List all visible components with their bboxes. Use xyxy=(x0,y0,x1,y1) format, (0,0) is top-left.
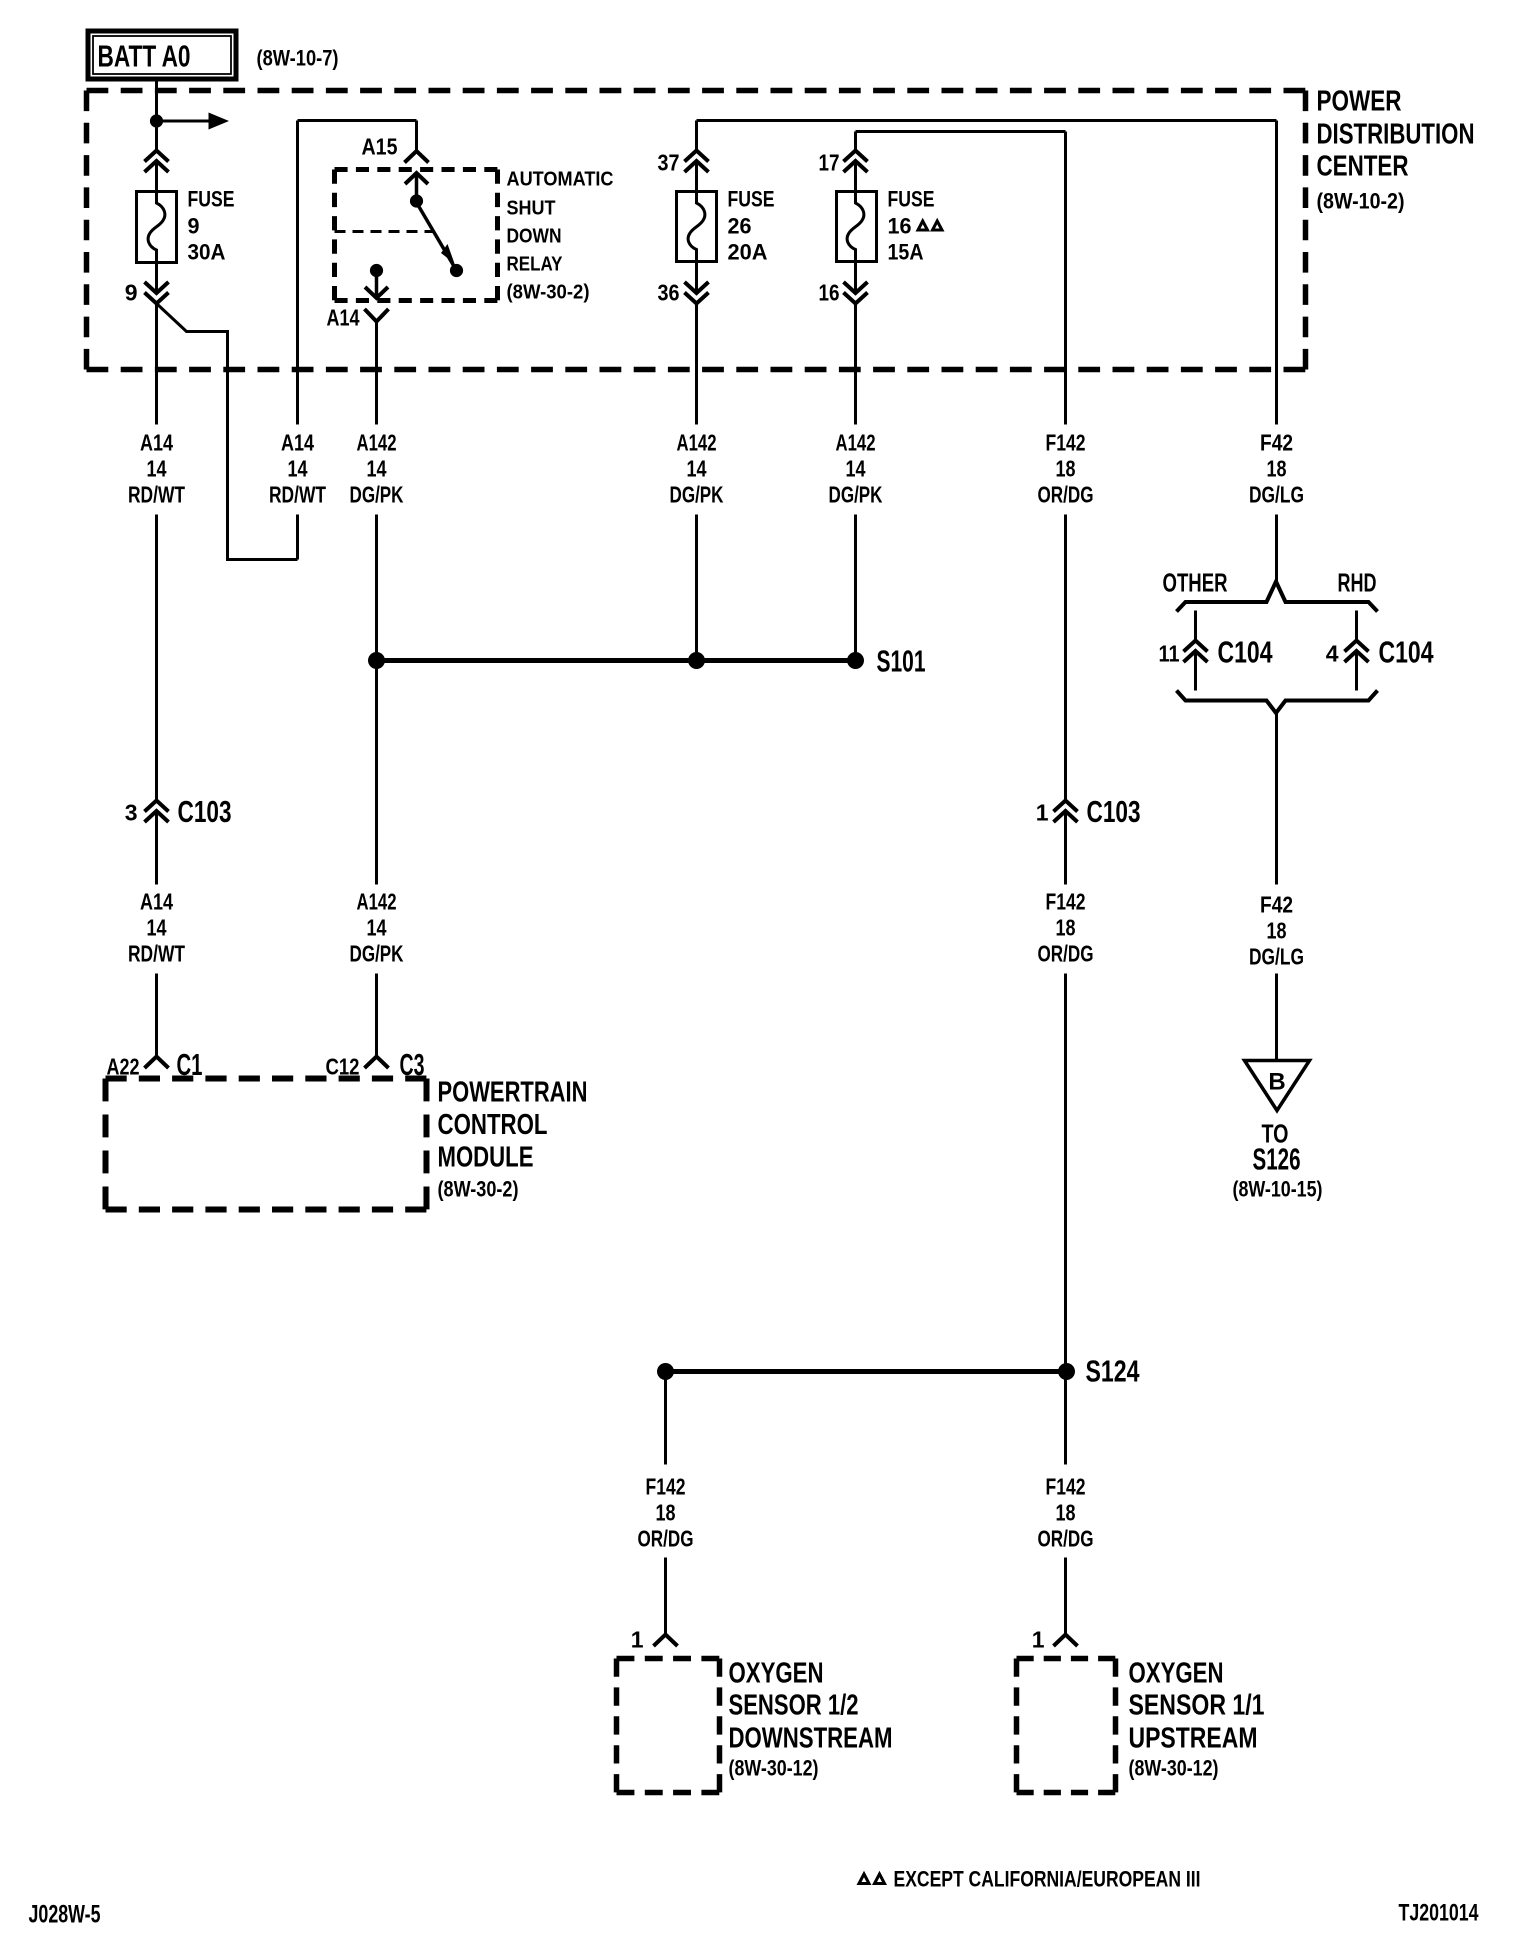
wire label A14 14 RD/WT column 2 row 1 xyxy=(269,430,326,508)
svg-text:POWER: POWER xyxy=(1317,86,1402,118)
svg-text:DG/LG: DG/LG xyxy=(1249,482,1304,508)
label OXYGEN SENSOR 1/2 DOWNSTREAM xyxy=(729,1658,893,1781)
wire label A14 14 RD/WT column 1 row 2 xyxy=(128,889,185,967)
triangle off-page connector B xyxy=(1245,1061,1310,1111)
svg-text:A142: A142 xyxy=(357,430,397,456)
connector half chevron C3 xyxy=(365,1057,389,1069)
svg-text:DG/PK: DG/PK xyxy=(350,482,404,508)
svg-text:RD/WT: RD/WT xyxy=(128,482,185,508)
svg-text:C104: C104 xyxy=(1379,635,1435,670)
relay switch arm with arrowhead xyxy=(417,203,457,271)
splice S101 xyxy=(368,644,926,679)
svg-text:OXYGEN: OXYGEN xyxy=(729,1658,824,1690)
wire arrow to right from BATT feed xyxy=(163,113,230,130)
svg-text:OR/DG: OR/DG xyxy=(1038,1526,1094,1552)
wire horizontal feed to relay pin A15 xyxy=(298,119,417,122)
svg-text:CONTROL: CONTROL xyxy=(438,1109,548,1141)
svg-text:FUSE: FUSE xyxy=(888,187,935,212)
svg-text:14: 14 xyxy=(147,915,167,941)
svg-text:11: 11 xyxy=(1159,641,1180,667)
power distribution center dashed box xyxy=(87,91,1306,370)
connector half chevron C1 xyxy=(145,1057,169,1069)
svg-text:RHD: RHD xyxy=(1338,568,1377,598)
wire top feed to fuse 26 and F42 xyxy=(697,119,1277,122)
svg-text:36: 36 xyxy=(658,280,680,306)
wire stub C104 right xyxy=(1355,611,1358,691)
wire label A142 14 DG/PK column 3 row 1 xyxy=(350,430,404,508)
svg-text:(8W-10-2): (8W-10-2) xyxy=(1317,189,1405,214)
svg-text:(8W-30-12): (8W-30-12) xyxy=(729,1756,819,1781)
svg-text:S126: S126 xyxy=(1253,1142,1301,1177)
relay automatic shut down dashed box xyxy=(335,170,498,301)
node BATT A0 box xyxy=(88,31,236,79)
svg-text:F42: F42 xyxy=(1260,430,1293,456)
svg-text:SENSOR 1/1: SENSOR 1/1 xyxy=(1129,1690,1265,1722)
wire relay feed column A14 RD/WT xyxy=(296,121,299,560)
svg-text:1: 1 xyxy=(1036,800,1049,826)
svg-text:EXCEPT CALIFORNIA/EUROPEAN III: EXCEPT CALIFORNIA/EUROPEAN III xyxy=(894,1867,1201,1892)
svg-text:POWERTRAIN: POWERTRAIN xyxy=(438,1077,588,1109)
fuse 26 20A xyxy=(677,187,775,265)
label AUTOMATIC SHUT DOWN RELAY xyxy=(507,169,614,304)
svg-text:OR/DG: OR/DG xyxy=(638,1526,694,1552)
wire top feed to fuse 16 and F142 xyxy=(856,130,1066,133)
connector half chevron left sensor xyxy=(654,1635,678,1647)
svg-text:OTHER: OTHER xyxy=(1163,568,1228,598)
relay pin A15 arrow inside xyxy=(405,173,428,201)
connector half chevron below relay pin A14 xyxy=(365,309,389,322)
wire label F142 18 OR/DG column 6 row 1 xyxy=(1038,430,1094,508)
connector chevrons above fuse 26 xyxy=(685,151,709,173)
svg-text:SHUT: SHUT xyxy=(507,198,556,220)
svg-text:14: 14 xyxy=(367,456,387,482)
connector chevrons C103 right xyxy=(1054,801,1078,823)
wire into fuse 26 xyxy=(695,121,698,192)
wire F142 column from PDC xyxy=(1064,132,1067,1635)
wire branch from fuse 9 output to relay feed column xyxy=(157,304,298,560)
brace bottom at C104 xyxy=(1177,691,1378,714)
svg-text:(8W-30-12): (8W-30-12) xyxy=(1129,1756,1219,1781)
svg-text:SENSOR 1/2: SENSOR 1/2 xyxy=(729,1690,859,1722)
powertrain control module dashed box xyxy=(106,1079,427,1210)
svg-text:DG/PK: DG/PK xyxy=(829,482,883,508)
svg-text:37: 37 xyxy=(658,150,680,176)
svg-text:17: 17 xyxy=(819,150,840,176)
note EXCEPT CALIFORNIA/EUROPEAN III xyxy=(859,1867,1201,1892)
svg-text:RD/WT: RD/WT xyxy=(269,482,326,508)
label POWERTRAIN CONTROL MODULE xyxy=(438,1077,588,1202)
fuse 16 15A xyxy=(837,187,935,265)
svg-text:F142: F142 xyxy=(646,1474,686,1500)
svg-text:RELAY: RELAY xyxy=(507,254,564,276)
wire BATT A0 to fuse 9 xyxy=(155,82,158,192)
svg-text:S124: S124 xyxy=(1086,1354,1141,1389)
svg-text:RD/WT: RD/WT xyxy=(128,941,185,967)
svg-text:14: 14 xyxy=(846,456,866,482)
wire below fuse 9 xyxy=(155,263,158,425)
wire stub C104 left xyxy=(1194,611,1197,691)
svg-text:26: 26 xyxy=(728,214,752,239)
svg-text:F42: F42 xyxy=(1260,892,1293,918)
svg-text:(8W-10-15): (8W-10-15) xyxy=(1233,1177,1323,1202)
svg-text:MODULE: MODULE xyxy=(438,1142,534,1174)
svg-text:C103: C103 xyxy=(1087,794,1141,829)
svg-text:F142: F142 xyxy=(1046,1474,1086,1500)
svg-text:AUTOMATIC: AUTOMATIC xyxy=(507,169,614,191)
svg-text:15A: 15A xyxy=(888,240,924,265)
label POWER DISTRIBUTION CENTER xyxy=(1317,86,1475,214)
svg-text:C103: C103 xyxy=(178,794,232,829)
connector half chevron right sensor xyxy=(1054,1635,1078,1647)
svg-text:DOWNSTREAM: DOWNSTREAM xyxy=(729,1723,893,1755)
svg-text:30A: 30A xyxy=(188,240,226,265)
svg-text:OR/DG: OR/DG xyxy=(1038,941,1094,967)
svg-text:18: 18 xyxy=(1056,1500,1076,1526)
connector chevrons below fuse 9 xyxy=(145,282,169,304)
svg-text:S101: S101 xyxy=(877,644,926,679)
svg-text:(8W-30-2): (8W-30-2) xyxy=(507,282,590,304)
svg-text:20A: 20A xyxy=(728,240,768,265)
connector chevrons C104 right xyxy=(1345,641,1369,663)
svg-text:1: 1 xyxy=(631,1627,644,1653)
svg-text:TJ201014: TJ201014 xyxy=(1399,1900,1479,1927)
svg-text:UPSTREAM: UPSTREAM xyxy=(1129,1723,1258,1755)
svg-text:DOWN: DOWN xyxy=(507,226,562,248)
svg-text:16: 16 xyxy=(888,214,912,239)
svg-text:C104: C104 xyxy=(1218,635,1274,670)
relay pin A14 arrow down xyxy=(365,271,388,299)
marker triangles for fuse 16 xyxy=(918,221,942,230)
wire label F42 18 DG/LG column 7 row 2 xyxy=(1249,892,1304,970)
svg-text:CENTER: CENTER xyxy=(1317,151,1409,183)
wire label F142 18 OR/DG right row 3 xyxy=(1038,1474,1094,1552)
label OXYGEN SENSOR 1/1 UPSTREAM xyxy=(1129,1658,1265,1781)
wire column 1 lower segments xyxy=(155,515,158,1057)
svg-text:BATT A0: BATT A0 xyxy=(98,39,191,74)
svg-text:18: 18 xyxy=(1267,918,1287,944)
svg-text:A14: A14 xyxy=(140,889,173,915)
svg-text:A14: A14 xyxy=(140,430,173,456)
svg-text:DISTRIBUTION: DISTRIBUTION xyxy=(1317,119,1475,151)
svg-text:18: 18 xyxy=(656,1500,676,1526)
connector chevrons below fuse 26 xyxy=(685,282,709,304)
relay switch common dot xyxy=(410,194,423,207)
relay switch output dot xyxy=(450,264,463,277)
svg-text:14: 14 xyxy=(687,456,707,482)
fuse 9 30A xyxy=(137,187,235,265)
svg-text:A142: A142 xyxy=(836,430,876,456)
wire label F142 18 OR/DG left row 3 xyxy=(638,1474,694,1552)
wire label A142 14 DG/PK column 5 row 1 xyxy=(829,430,883,508)
svg-text:9: 9 xyxy=(125,280,138,306)
svg-text:F142: F142 xyxy=(1046,889,1086,915)
svg-text:A15: A15 xyxy=(362,134,398,160)
svg-text:FUSE: FUSE xyxy=(728,187,775,212)
svg-text:16: 16 xyxy=(819,280,840,306)
connector chevrons below fuse 16 xyxy=(844,282,868,304)
svg-text:18: 18 xyxy=(1056,456,1076,482)
svg-text:DG/PK: DG/PK xyxy=(670,482,724,508)
connector chevrons above fuse 16 xyxy=(844,151,868,173)
svg-text:3: 3 xyxy=(125,800,138,826)
junction dot at BATT feed xyxy=(150,114,163,127)
wire label F42 18 DG/LG column 7 row 1 xyxy=(1249,430,1304,508)
svg-text:14: 14 xyxy=(288,456,308,482)
wire label F142 18 OR/DG column 6 row 2 xyxy=(1038,889,1094,967)
svg-text:18: 18 xyxy=(1267,456,1287,482)
connector chevrons C104 left xyxy=(1184,641,1208,663)
wire label A142 14 DG/PK column 4 row 1 xyxy=(670,430,724,508)
svg-text:J028W-5: J028W-5 xyxy=(29,1901,101,1929)
svg-text:F142: F142 xyxy=(1046,430,1086,456)
connector chevrons above fuse 9 xyxy=(145,151,169,173)
label TO S126 xyxy=(1233,1119,1323,1202)
wire S124 to oxygen sensor 1/2 xyxy=(664,1372,667,1635)
wire below fuse 16 xyxy=(854,262,857,661)
wire label A142 14 DG/PK column 3 row 2 xyxy=(350,889,404,967)
wire label A14 14 RD/WT column 1 row 1 xyxy=(128,430,185,508)
wire down to relay pin A15 xyxy=(415,121,418,152)
oxygen sensor 1/2 downstream dashed box xyxy=(617,1659,720,1793)
svg-text:4: 4 xyxy=(1326,641,1339,667)
oxygen sensor 1/1 upstream dashed box xyxy=(1017,1659,1116,1793)
svg-text:18: 18 xyxy=(1056,915,1076,941)
svg-text:14: 14 xyxy=(367,915,387,941)
svg-text:A142: A142 xyxy=(357,889,397,915)
connector half chevron A15 xyxy=(405,151,429,163)
svg-text:A142: A142 xyxy=(677,430,717,456)
splice S124 xyxy=(657,1354,1140,1389)
relay pin A14 dot xyxy=(370,264,383,277)
svg-text:9: 9 xyxy=(188,214,200,239)
svg-text:A14: A14 xyxy=(327,305,360,331)
brace top at C104 xyxy=(1177,582,1378,612)
svg-text:14: 14 xyxy=(147,456,167,482)
svg-text:(8W-10-7): (8W-10-7) xyxy=(257,46,339,71)
svg-text:1: 1 xyxy=(1032,1627,1045,1653)
wire F42 column from PDC xyxy=(1275,121,1278,1061)
wire below fuse 26 xyxy=(695,262,698,661)
svg-text:B: B xyxy=(1268,1069,1285,1096)
svg-text:FUSE: FUSE xyxy=(188,187,235,212)
svg-text:A14: A14 xyxy=(281,430,314,456)
wire relay A14 down to S101 and PCM xyxy=(375,322,378,1057)
svg-text:OR/DG: OR/DG xyxy=(1038,482,1094,508)
svg-text:(8W-30-2): (8W-30-2) xyxy=(438,1177,519,1202)
svg-text:OXYGEN: OXYGEN xyxy=(1129,1658,1224,1690)
svg-text:DG/LG: DG/LG xyxy=(1249,944,1304,970)
connector chevrons C103 left xyxy=(145,801,169,823)
relay coil divider dashed line xyxy=(335,230,434,233)
svg-text:DG/PK: DG/PK xyxy=(350,941,404,967)
wire into fuse 16 xyxy=(854,132,857,192)
